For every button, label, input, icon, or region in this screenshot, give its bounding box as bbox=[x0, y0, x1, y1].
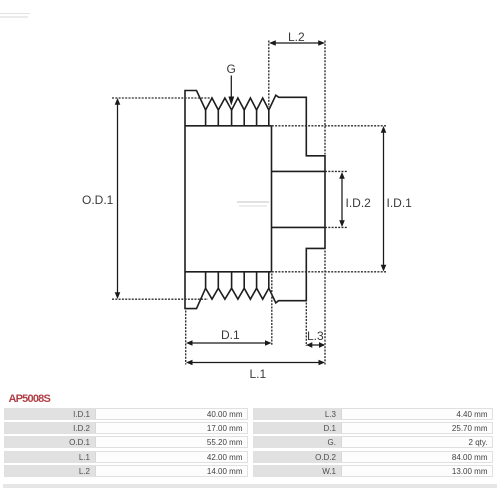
label I.D.1 bbox=[387, 196, 412, 210]
label L.3 bbox=[307, 329, 324, 343]
dimension L.2 bbox=[271, 42, 323, 44]
dimension D.1 bbox=[188, 342, 270, 344]
label G bbox=[227, 62, 236, 76]
watermark smudge top left bbox=[0, 13, 30, 15]
part number AP5008S bbox=[9, 394, 51, 405]
groove root lines top bbox=[206, 110, 269, 126]
dimension I.D.1 bbox=[383, 128, 385, 270]
pulley technical drawing bbox=[0, 0, 500, 392]
L3 extension left bbox=[305, 303, 307, 347]
ID1 extension line top bbox=[272, 125, 387, 127]
label O.D.1 bbox=[82, 193, 113, 207]
body right face bbox=[271, 126, 273, 272]
OD extension line top bbox=[112, 97, 212, 99]
L1 extension left bbox=[185, 311, 187, 365]
dimension I.D.2 bbox=[341, 174, 343, 225]
dimension O.D.1 bbox=[117, 100, 119, 297]
spec table right column bbox=[253, 408, 493, 420]
label I.D.2 bbox=[346, 196, 371, 210]
D1 extension right bbox=[271, 274, 273, 346]
ID2 extension line bottom bbox=[325, 226, 348, 228]
ID1 extension line bottom bbox=[272, 271, 387, 273]
OD extension line bottom bbox=[112, 298, 208, 300]
label L.2 bbox=[288, 30, 305, 44]
dimension L.3 bbox=[307, 344, 324, 346]
label D.1 bbox=[221, 328, 240, 342]
L2 extension left bbox=[268, 41, 270, 108]
footer bar bbox=[3, 484, 497, 488]
groove pointer G bbox=[230, 76, 232, 98]
rim inner edge top bbox=[185, 125, 272, 127]
pulley cross-section outline bbox=[185, 91, 325, 309]
label L.1 bbox=[250, 367, 267, 381]
bore wall top bbox=[272, 170, 326, 172]
ID2 extension line top bbox=[325, 170, 348, 172]
rim inner edge bottom bbox=[185, 271, 272, 273]
bore wall bottom bbox=[272, 226, 326, 228]
L1/L3 extension right bbox=[324, 251, 326, 365]
L2/L3 extension right bbox=[324, 41, 326, 155]
watermark smudge in body bbox=[237, 201, 269, 203]
spec table left column bbox=[4, 408, 248, 420]
groove root lines bottom bbox=[206, 272, 269, 288]
dimension L.1 bbox=[188, 362, 323, 364]
